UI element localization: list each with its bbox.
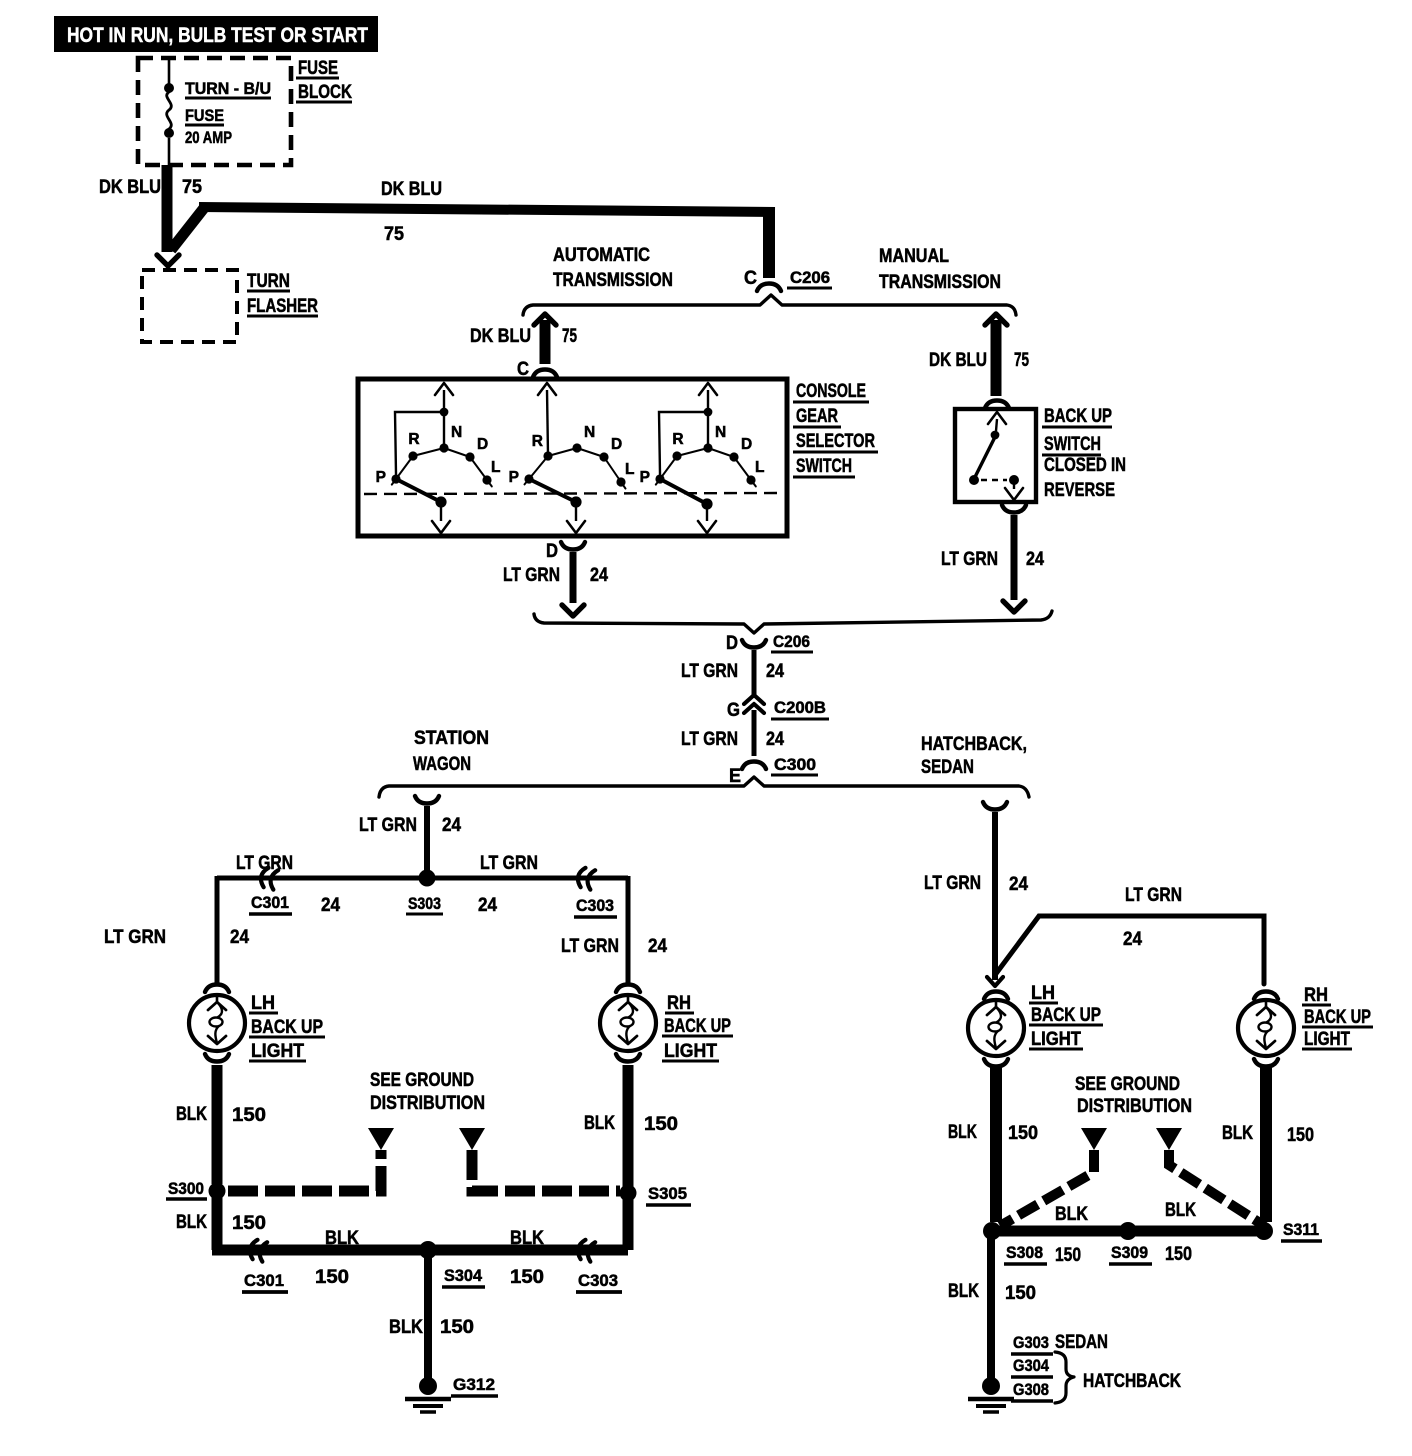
power feed banner: HOT IN RUN, BULB TEST OR START (54, 16, 378, 52)
svg-text:BLK: BLK (584, 1113, 615, 1134)
splice S300 (166, 1179, 226, 1200)
arrow into turn flasher (157, 255, 179, 266)
svg-text:C303: C303 (576, 896, 614, 915)
svg-text:LT GRN: LT GRN (941, 549, 998, 570)
svg-text:24: 24 (766, 729, 784, 750)
wire: BLK 150 from RH light to S311 (1222, 1059, 1314, 1222)
svg-text:MANUAL: MANUAL (879, 246, 949, 267)
wire: BLK 150 from S304 to ground G312 (389, 1250, 474, 1380)
wire: LT GRN 24 branch to RH light (995, 885, 1264, 984)
svg-text:R: R (408, 431, 419, 448)
svg-text:DK BLU: DK BLU (470, 326, 531, 347)
connector C301 (249, 867, 292, 914)
svg-text:S303: S303 (408, 894, 441, 913)
svg-text:DK BLU: DK BLU (381, 179, 442, 200)
svg-text:150: 150 (315, 1267, 349, 1288)
wire: DK BLU 75 to back-up switch (929, 314, 1029, 396)
wire: LT GRN 24 (C206 to C200B) (681, 650, 784, 698)
svg-text:BLK: BLK (176, 1104, 207, 1125)
back-up switch S1 (955, 406, 1126, 502)
svg-text:C301: C301 (251, 893, 289, 912)
svg-text:24: 24 (1009, 874, 1028, 895)
svg-text:C300: C300 (774, 755, 816, 774)
svg-text:75: 75 (384, 224, 404, 245)
connector at back-up switch bottom (1002, 505, 1026, 513)
svg-text:D: D (477, 436, 488, 453)
svg-text:SELECTOR: SELECTOR (796, 431, 875, 452)
svg-text:S305: S305 (648, 1184, 687, 1203)
svg-text:FUSE: FUSE (185, 106, 224, 125)
splice S305 (620, 1184, 692, 1205)
svg-text:CONSOLE: CONSOLE (796, 381, 866, 402)
svg-text:REVERSE: REVERSE (1044, 480, 1115, 501)
svg-text:S300: S300 (168, 1179, 204, 1198)
ground G312 (405, 1375, 498, 1412)
svg-text:SEE GROUND: SEE GROUND (370, 1070, 474, 1091)
body style split bracket (379, 728, 1029, 797)
svg-text:STATION: STATION (414, 728, 489, 749)
splice S303 (406, 870, 443, 915)
svg-text:DISTRIBUTION: DISTRIBUTION (1077, 1096, 1192, 1117)
svg-text:LIGHT: LIGHT (1304, 1029, 1350, 1050)
svg-text:GEAR: GEAR (796, 406, 838, 427)
fuse block (dashed box) (138, 58, 352, 165)
svg-text:TRANSMISSION: TRANSMISSION (553, 270, 673, 291)
ground lead (dashed) from S300 (228, 1128, 394, 1191)
svg-text:LH: LH (251, 993, 275, 1014)
switch wafer 3 (P/R/N/D/L) (640, 383, 765, 533)
svg-text:BLK: BLK (1222, 1123, 1253, 1144)
svg-text:N: N (451, 424, 462, 441)
svg-text:G308: G308 (1013, 1380, 1049, 1399)
wire: LT GRN 24 (C200B to C300) (681, 710, 784, 756)
see ground distribution note (wagon) (370, 1070, 485, 1114)
ground lead (dashed) to S311 (1156, 1128, 1264, 1226)
svg-text:L: L (491, 459, 500, 476)
svg-text:LT GRN: LT GRN (561, 936, 619, 957)
svg-text:24: 24 (478, 895, 497, 916)
wire: LT GRN 24 from back-up switch (941, 515, 1044, 612)
svg-text:150: 150 (232, 1105, 266, 1126)
splice S309 (1109, 1222, 1152, 1264)
wire: DK BLU 75 long feed to C206 (199, 179, 775, 245)
svg-text:SWITCH: SWITCH (796, 456, 852, 477)
svg-text:BLK: BLK (389, 1317, 423, 1338)
merge bracket to connector C206 (534, 611, 1052, 633)
svg-text:E: E (729, 766, 741, 787)
svg-text:LIGHT: LIGHT (251, 1041, 304, 1062)
svg-text:DK BLU: DK BLU (929, 350, 987, 371)
wire: BLK 150 run S308-S309-S311 (992, 1200, 1264, 1266)
svg-text:BLK: BLK (1055, 1204, 1088, 1225)
console gear selector switch U1 (box) (358, 379, 878, 536)
connector C200B (terminal G) (727, 695, 829, 721)
connector C206 (terminal D) (726, 632, 813, 654)
see ground distribution note (hatchback/sedan) (1075, 1074, 1192, 1117)
svg-text:HOT IN RUN, BULB TEST OR START: HOT IN RUN, BULB TEST OR START (67, 24, 368, 47)
RH back-up light (hatchback/sedan) (1238, 985, 1373, 1056)
svg-text:WAGON: WAGON (413, 754, 471, 775)
svg-text:P: P (509, 469, 519, 486)
svg-text:C303: C303 (578, 1271, 618, 1290)
LH back-up light (wagon) (189, 993, 325, 1062)
svg-text:SEE GROUND: SEE GROUND (1075, 1074, 1180, 1095)
connector at back-up switch top (985, 401, 1009, 409)
wire: LT GRN 24 from console D (503, 552, 608, 616)
wire: BLK 150 from S308 to grounds (948, 1231, 1036, 1380)
svg-text:S311: S311 (1283, 1220, 1319, 1239)
svg-text:BACK UP: BACK UP (664, 1016, 731, 1037)
connector at LH back-up light (205, 985, 229, 993)
svg-text:BACK UP: BACK UP (251, 1017, 323, 1038)
svg-text:150: 150 (1165, 1244, 1192, 1265)
svg-text:TURN - B/U: TURN - B/U (185, 79, 271, 98)
svg-text:G303: G303 (1013, 1333, 1049, 1352)
svg-text:BACK UP: BACK UP (1044, 406, 1112, 427)
svg-text:24: 24 (442, 815, 461, 836)
svg-text:BLK: BLK (948, 1122, 977, 1143)
svg-text:SEDAN: SEDAN (921, 757, 974, 778)
svg-text:150: 150 (232, 1213, 266, 1234)
svg-text:LH: LH (1031, 983, 1055, 1004)
switch wafer 2 (P/R/N/D/L) (509, 383, 635, 533)
svg-text:BLK: BLK (176, 1212, 207, 1233)
svg-text:CLOSED IN: CLOSED IN (1044, 455, 1126, 476)
svg-text:N: N (715, 424, 726, 441)
svg-text:G304: G304 (1013, 1356, 1049, 1375)
wire: LT GRN 24 down to RH light (561, 876, 667, 984)
svg-text:C200B: C200B (774, 698, 826, 717)
ground lead (dashed) to S305 (459, 1128, 620, 1191)
svg-text:LT GRN: LT GRN (681, 661, 738, 682)
svg-text:SWITCH: SWITCH (1044, 434, 1101, 455)
svg-text:LT GRN: LT GRN (503, 565, 560, 586)
svg-text:L: L (625, 461, 634, 478)
svg-text:D: D (546, 541, 558, 562)
connector C303 (574, 867, 617, 917)
svg-text:HATCHBACK,: HATCHBACK, (921, 734, 1027, 755)
svg-text:S304: S304 (444, 1266, 483, 1285)
svg-text:RH: RH (1304, 985, 1328, 1006)
splice S308 (983, 1222, 1047, 1264)
svg-text:G: G (727, 700, 740, 721)
svg-text:LT GRN: LT GRN (681, 729, 738, 750)
svg-text:LT GRN: LT GRN (480, 853, 538, 874)
wire junction Y to main feed (171, 208, 204, 250)
mechanical link (dashed) (364, 493, 781, 494)
svg-text:150: 150 (1005, 1283, 1036, 1304)
svg-text:AUTOMATIC: AUTOMATIC (553, 245, 650, 266)
svg-text:150: 150 (440, 1317, 474, 1338)
connector C303 (lower) (576, 1239, 622, 1292)
svg-text:150: 150 (1008, 1123, 1038, 1144)
splice S304 (419, 1241, 485, 1287)
svg-text:24: 24 (1026, 549, 1044, 570)
wire: BLK 150 from RH light down to S305 (584, 1054, 678, 1188)
svg-text:24: 24 (230, 927, 249, 948)
svg-text:N: N (584, 424, 595, 441)
svg-text:SEDAN: SEDAN (1055, 1332, 1108, 1353)
svg-text:BLK: BLK (325, 1228, 359, 1249)
svg-text:L: L (755, 459, 764, 476)
svg-text:150: 150 (510, 1267, 544, 1288)
wire: LT GRN 24 left arm to C301 (217, 853, 427, 916)
svg-text:75: 75 (1014, 350, 1029, 371)
connector C301 (lower) (242, 1239, 288, 1292)
connector at RH back-up light (616, 985, 640, 993)
grounds G303/G304/G308 (968, 1332, 1181, 1412)
svg-text:BLOCK: BLOCK (298, 82, 352, 103)
svg-text:LT GRN: LT GRN (924, 873, 981, 894)
svg-text:C206: C206 (773, 632, 810, 651)
svg-text:BACK UP: BACK UP (1031, 1005, 1101, 1026)
svg-text:R: R (672, 431, 683, 448)
svg-text:24: 24 (590, 565, 608, 586)
wire: LT GRN 24 down to LH light (104, 876, 249, 984)
svg-text:S309: S309 (1111, 1243, 1148, 1262)
wire: DK BLU 75 to console gear selector switch (470, 314, 577, 364)
splice S311 (1255, 1220, 1322, 1241)
svg-text:D: D (611, 436, 622, 453)
svg-text:24: 24 (321, 895, 340, 916)
wire: LT GRN 24 right arm to C303 (427, 853, 628, 916)
turn flasher (dashed box) (142, 270, 318, 342)
connector at LH back-up light (984, 992, 1008, 1000)
wire: LT GRN 24 down to S303 (359, 806, 461, 871)
svg-text:P: P (376, 469, 386, 486)
switch wafer 1 (P/R/N/D/L) (376, 383, 501, 533)
svg-text:75: 75 (562, 326, 577, 347)
wire: DK BLU down to connector C206 (763, 210, 775, 278)
svg-text:20 AMP: 20 AMP (185, 128, 232, 147)
svg-text:R: R (532, 433, 543, 450)
connector at RH back-up light (1254, 992, 1278, 1000)
svg-text:LIGHT: LIGHT (664, 1041, 717, 1062)
svg-text:DISTRIBUTION: DISTRIBUTION (370, 1093, 485, 1114)
svg-text:P: P (640, 469, 650, 486)
svg-text:BLK: BLK (510, 1228, 544, 1249)
wire: BLK 150 from LH light to S308 (948, 1059, 1038, 1222)
wire: BLK 150 lower run S300-S304-S303 (176, 1186, 628, 1288)
svg-text:G312: G312 (453, 1375, 495, 1394)
svg-text:LT GRN: LT GRN (1125, 885, 1182, 906)
svg-text:C: C (744, 268, 757, 289)
svg-text:24: 24 (766, 661, 784, 682)
svg-text:BLK: BLK (948, 1281, 979, 1302)
ground lead (dashed) from S308 (1000, 1128, 1107, 1226)
svg-text:BACK UP: BACK UP (1304, 1007, 1371, 1028)
svg-text:RH: RH (667, 993, 691, 1014)
svg-text:150: 150 (1287, 1125, 1314, 1146)
wire: BLK 150 from LH light down to S300 (176, 1054, 266, 1184)
svg-text:C301: C301 (244, 1271, 284, 1290)
svg-text:TURN: TURN (247, 271, 290, 292)
svg-text:24: 24 (1123, 929, 1142, 950)
RH back-up light (wagon) (600, 993, 733, 1062)
svg-text:FUSE: FUSE (298, 58, 338, 79)
wire: LT GRN 24 down to LH light (924, 812, 1028, 980)
svg-text:HATCHBACK: HATCHBACK (1083, 1371, 1181, 1392)
wire: DK BLU 75 from fuse block down (99, 165, 202, 252)
transmission type split bracket (523, 245, 1016, 315)
connector at console switch terminal C (517, 359, 557, 380)
svg-text:D: D (741, 436, 752, 453)
svg-text:150: 150 (1055, 1245, 1081, 1266)
svg-text:150: 150 (644, 1114, 678, 1135)
svg-text:75: 75 (182, 177, 202, 198)
svg-text:DK BLU: DK BLU (99, 177, 161, 198)
svg-text:TRANSMISSION: TRANSMISSION (879, 272, 1001, 293)
svg-text:FLASHER: FLASHER (247, 296, 318, 317)
svg-text:LT GRN: LT GRN (359, 815, 417, 836)
fuse F: TURN-B/U FUSE 20 AMP (164, 58, 271, 165)
svg-text:LIGHT: LIGHT (1031, 1029, 1081, 1050)
svg-text:24: 24 (648, 936, 667, 957)
svg-text:LT GRN: LT GRN (104, 927, 166, 948)
svg-text:BLK: BLK (1165, 1200, 1196, 1221)
connector from bracket (hatchback/sedan) (983, 802, 1007, 810)
svg-text:S308: S308 (1006, 1243, 1043, 1262)
LH back-up light (hatchback/sedan) (968, 983, 1103, 1056)
connector C206 (terminal C) (744, 268, 832, 291)
connector at console terminal D (546, 541, 585, 562)
svg-text:D: D (726, 633, 738, 654)
arrow into LH light (987, 977, 1003, 986)
connector from bracket (wagon) (415, 796, 439, 804)
connector C300 (terminal E) (729, 755, 818, 787)
svg-text:C206: C206 (790, 268, 830, 287)
